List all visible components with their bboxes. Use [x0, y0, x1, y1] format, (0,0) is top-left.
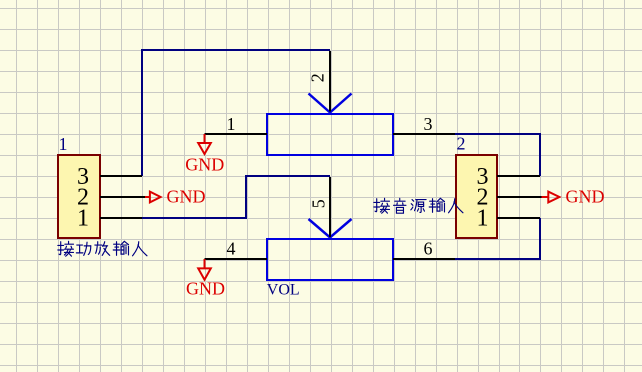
- svg-text:1: 1: [59, 134, 68, 154]
- svg-text:2: 2: [457, 134, 466, 154]
- svg-text:VOL: VOL: [267, 282, 300, 299]
- J2 pin 3: [497, 175, 540, 177]
- svg-text:1: 1: [227, 114, 236, 134]
- RP1 wiper arrow: [309, 94, 352, 113]
- J1 pin 3: [100, 175, 142, 177]
- svg-text:GND: GND: [186, 279, 225, 299]
- ground GND (J2 pin2): [542, 192, 560, 203]
- connector J1 body: [58, 155, 100, 238]
- wire W1: left conn pin3 up and along top rail to pot1 wiper: [142, 50, 330, 176]
- potentiometer RP2 body: [267, 239, 393, 280]
- RP1 pin 3: [393, 133, 455, 135]
- svg-text:6: 6: [424, 239, 433, 259]
- label jie-yin-yuan-shu-ru: [374, 198, 463, 213]
- svg-text:1: 1: [77, 206, 89, 232]
- RP2 pin 4: [205, 258, 268, 260]
- svg-text:5: 5: [308, 199, 328, 208]
- J1 pin 1: [100, 217, 142, 219]
- wire W3: pot1 pin3 to right conn pin3: [455, 134, 540, 176]
- RP2 pin 5 (wiper stem): [329, 177, 331, 237]
- J2 pin 1: [497, 217, 540, 219]
- ground GND (RP2 pin4): [198, 259, 211, 280]
- svg-text:GND: GND: [566, 187, 605, 207]
- J1 pin 2: [100, 196, 145, 198]
- potentiometer RP1 body: [267, 114, 393, 155]
- svg-text:3: 3: [424, 114, 433, 134]
- connector J2 body: [456, 155, 497, 238]
- J2 pin 2: [497, 196, 542, 198]
- svg-text:1: 1: [477, 206, 489, 232]
- svg-text:4: 4: [227, 239, 236, 259]
- svg-text:GND: GND: [167, 187, 206, 207]
- svg-text:GND: GND: [185, 155, 224, 175]
- RP2 pin 6: [393, 258, 455, 260]
- wire W2: left conn pin1 right, up, right to pot2 wiper stem: [142, 176, 330, 218]
- RP2 wiper arrow: [309, 219, 352, 238]
- ground GND (RP1 pin1): [198, 134, 211, 154]
- ground GND (J1 pin2): [145, 192, 161, 203]
- svg-text:2: 2: [308, 73, 328, 82]
- RP1 pin 1: [205, 133, 268, 135]
- label jie-gong-fang-shu-ru: [58, 241, 147, 256]
- RP1 pin 2 (wiper stem): [329, 51, 331, 112]
- wire W4: pot2 pin6 to right conn pin1: [455, 218, 540, 259]
